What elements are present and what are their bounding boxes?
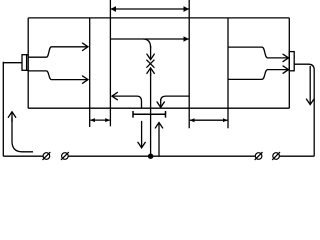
left gap double arrow	[90, 119, 110, 121]
right flange	[289, 52, 294, 71]
right down flow arrow	[309, 66, 311, 105]
right outlet stub with bend down to manifold	[294, 64, 314, 156]
junction dot	[148, 154, 153, 159]
valve symbol 1	[43, 152, 51, 160]
wall x=90	[89, 18, 91, 108]
extension line x=188	[188, 0, 190, 128]
left flange ticks to wall	[27, 55, 29, 71]
chamber outer box	[28, 18, 289, 108]
leader curve to X	[144, 39, 151, 48]
valve symbol 4	[272, 152, 280, 160]
right gap double arrow	[190, 119, 228, 121]
center up flow arrow	[158, 123, 160, 157]
leader down arrowhead	[160, 99, 162, 107]
left flask upper outline arrow	[28, 47, 88, 57]
valve symbol 3	[255, 152, 263, 160]
wall x=228	[227, 18, 229, 108]
X mark	[146, 60, 154, 68]
bottom-left up arrowhead	[11, 112, 13, 122]
bar plate	[133, 111, 166, 118]
valve symbol 2	[61, 152, 69, 160]
extension line x=228 below box	[227, 108, 229, 128]
left flange	[22, 55, 27, 71]
down arrow to X	[150, 46, 152, 60]
right flask upper outline arrow	[228, 47, 289, 58]
up arrow below X	[150, 68, 152, 76]
leader arrow to left wall	[112, 95, 137, 97]
center vertical wire	[150, 73, 152, 156]
center down flow arrow	[141, 121, 143, 148]
bottom manifold line	[3, 155, 314, 157]
left inlet stub	[3, 62, 22, 157]
mid horizontal arrow	[111, 38, 189, 40]
top dimension double arrow	[111, 8, 189, 10]
extension line x=110	[109, 0, 111, 126]
extension line x=90 below box	[89, 108, 91, 127]
bottom-left curved up arrow	[12, 118, 33, 152]
right flask lower outline arrow	[228, 70, 289, 80]
leader curve from bar	[137, 96, 142, 108]
leader arrow down from right wall	[161, 96, 190, 101]
left flask lower outline arrow	[28, 71, 88, 80]
